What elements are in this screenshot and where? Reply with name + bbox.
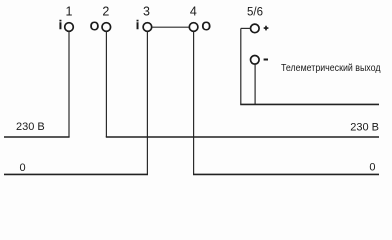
terminal 6 (-) [251,56,260,65]
svg-text:230 В: 230 В [16,121,45,133]
net 0 left bus [4,173,148,175]
wire: link between terminals 3 and 4 [152,26,189,28]
wire: telemetry bottom line [240,103,379,105]
wire: terminal 6 (-) down [254,64,256,104]
net 230V right bus [106,136,379,138]
minus sign [264,59,268,61]
svg-text:1: 1 [66,5,73,19]
wire: terminal 1 down to left 230V bus [68,32,70,138]
wire: terminal 5 (+) stub [241,27,251,29]
svg-text:0: 0 [20,162,26,174]
terminal 2 [102,23,111,32]
svg-text:3: 3 [143,5,150,19]
svg-text:O: O [201,20,211,34]
wire: telemetry left vertical [240,28,242,104]
wire: terminal 4 down to right 0 bus [193,32,195,175]
svg-text:Телеметрический выход: Телеметрический выход [281,63,381,74]
terminal 4 [189,23,198,32]
wire: terminal 3 down to left 0 bus [146,32,148,175]
svg-text:2: 2 [102,5,109,19]
svg-text:i: i [136,18,139,32]
svg-text:O: O [90,20,100,34]
net 0 right bus [193,173,379,175]
terminal 3 [143,23,152,32]
svg-text:0: 0 [369,162,375,174]
svg-text:5/6: 5/6 [247,7,263,19]
terminal 5 (+) [251,24,260,33]
wire: terminal 2 down to right 230V bus [105,32,107,138]
svg-text:230 В: 230 В [350,122,379,134]
net 230V left bus [4,136,70,138]
plus sign [264,26,269,31]
svg-text:4: 4 [190,5,197,19]
terminal 1 [65,23,74,32]
svg-text:i: i [59,18,62,32]
